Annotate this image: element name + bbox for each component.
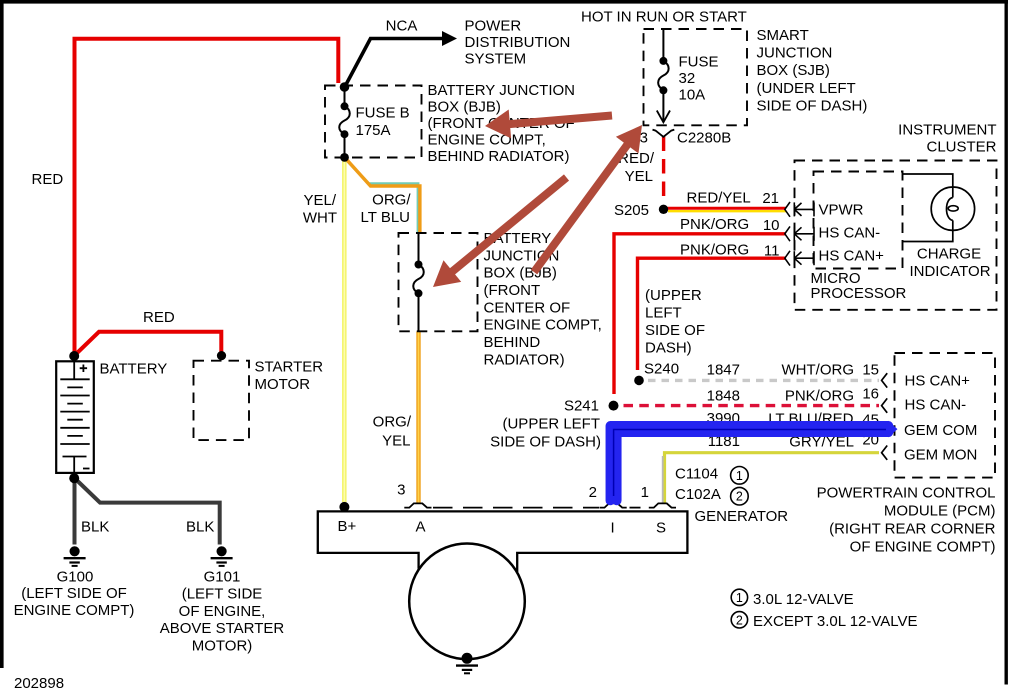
svg-text:LEFT: LEFT xyxy=(645,305,682,322)
svg-text:INSTRUMENT: INSTRUMENT xyxy=(898,122,996,139)
svg-text:ABOVE STARTER: ABOVE STARTER xyxy=(160,620,285,637)
svg-text:C102A: C102A xyxy=(675,486,721,503)
svg-text:BEHIND: BEHIND xyxy=(484,334,541,351)
svg-text:202898: 202898 xyxy=(14,675,64,692)
svg-text:10A: 10A xyxy=(679,87,706,104)
svg-text:HS CAN+: HS CAN+ xyxy=(819,248,885,265)
svg-text:YEL: YEL xyxy=(382,433,410,450)
svg-text:S205: S205 xyxy=(614,202,649,219)
svg-text:1847: 1847 xyxy=(707,362,740,379)
svg-text:C2280B: C2280B xyxy=(677,130,731,147)
svg-text:DISTRIBUTION: DISTRIBUTION xyxy=(465,34,571,51)
svg-text:15: 15 xyxy=(862,362,879,379)
svg-text:(LEFT SIDE OF: (LEFT SIDE OF xyxy=(21,585,127,602)
svg-text:WHT: WHT xyxy=(303,210,337,227)
svg-text:HS CAN-: HS CAN- xyxy=(819,225,881,242)
svg-text:NCA: NCA xyxy=(386,18,418,35)
svg-text:SIDE OF DASH): SIDE OF DASH) xyxy=(490,434,601,451)
svg-text:YEL: YEL xyxy=(625,168,653,185)
svg-text:11: 11 xyxy=(764,243,780,260)
svg-text:POWERTRAIN CONTROL: POWERTRAIN CONTROL xyxy=(817,485,996,502)
svg-text:INDICATOR: INDICATOR xyxy=(909,263,990,280)
svg-text:2: 2 xyxy=(736,490,743,504)
svg-text:175A: 175A xyxy=(356,122,391,139)
svg-text:32: 32 xyxy=(679,70,696,87)
svg-text:1: 1 xyxy=(641,484,649,501)
svg-text:CENTER OF: CENTER OF xyxy=(484,299,571,316)
svg-text:BOX (SJB): BOX (SJB) xyxy=(757,62,830,79)
svg-text:ENGINE COMPT): ENGINE COMPT) xyxy=(14,602,135,619)
svg-text:OF ENGINE,: OF ENGINE, xyxy=(179,603,266,620)
svg-text:I: I xyxy=(611,520,615,537)
svg-text:OF ENGINE COMPT): OF ENGINE COMPT) xyxy=(850,539,996,556)
svg-text:S: S xyxy=(656,520,666,537)
svg-text:C1104: C1104 xyxy=(675,466,718,483)
svg-text:GENERATOR: GENERATOR xyxy=(695,508,789,525)
svg-text:BOX (BJB): BOX (BJB) xyxy=(484,265,557,282)
svg-text:CLUSTER: CLUSTER xyxy=(926,139,996,156)
svg-text:SIDE OF DASH): SIDE OF DASH) xyxy=(757,98,868,115)
svg-text:ENGINE COMPT,: ENGINE COMPT, xyxy=(484,317,602,334)
svg-text:3: 3 xyxy=(397,482,405,499)
svg-text:1: 1 xyxy=(736,591,743,605)
svg-text:SMART: SMART xyxy=(757,27,809,44)
svg-text:RED/YEL: RED/YEL xyxy=(687,190,751,207)
svg-text:RADIATOR): RADIATOR) xyxy=(484,351,565,368)
svg-text:JUNCTION: JUNCTION xyxy=(757,45,833,62)
svg-text:2: 2 xyxy=(589,484,597,501)
svg-text:(RIGHT REAR CORNER: (RIGHT REAR CORNER xyxy=(829,521,996,538)
svg-text:MOTOR): MOTOR) xyxy=(192,637,253,654)
svg-text:(FRONT: (FRONT xyxy=(484,282,541,299)
svg-text:PNK/ORG: PNK/ORG xyxy=(680,242,749,259)
svg-text:PNK/ORG: PNK/ORG xyxy=(680,216,749,233)
svg-text:GEM MON: GEM MON xyxy=(904,447,977,464)
svg-text:HS CAN-: HS CAN- xyxy=(905,397,967,414)
svg-text:SIDE OF: SIDE OF xyxy=(645,322,705,339)
svg-text:S240: S240 xyxy=(644,361,679,378)
svg-text:RED: RED xyxy=(143,309,175,326)
svg-text:B+: B+ xyxy=(338,518,357,535)
svg-text:ORG/: ORG/ xyxy=(373,414,412,431)
svg-text:(UNDER LEFT: (UNDER LEFT xyxy=(757,80,856,97)
svg-text:(UPPER: (UPPER xyxy=(645,287,702,304)
svg-text:STARTER: STARTER xyxy=(255,359,324,376)
svg-text:PNK/ORG: PNK/ORG xyxy=(785,388,854,405)
svg-text:1848: 1848 xyxy=(707,388,740,405)
svg-text:PROCESSOR: PROCESSOR xyxy=(811,285,907,302)
svg-text:MOTOR: MOTOR xyxy=(255,376,311,393)
svg-text:BLK: BLK xyxy=(81,519,109,536)
svg-text:RED: RED xyxy=(32,171,64,188)
svg-text:ORG/: ORG/ xyxy=(372,192,411,209)
svg-text:(LEFT SIDE: (LEFT SIDE xyxy=(182,586,263,603)
svg-text:YEL/: YEL/ xyxy=(303,192,336,209)
svg-text:BATTERY: BATTERY xyxy=(100,361,168,378)
svg-text:VPWR: VPWR xyxy=(819,202,864,219)
svg-text:(UPPER LEFT: (UPPER LEFT xyxy=(502,416,600,433)
svg-text:POWER: POWER xyxy=(465,18,522,35)
svg-text:1: 1 xyxy=(736,469,743,483)
svg-text:MODULE (PCM): MODULE (PCM) xyxy=(884,503,996,520)
svg-text:ENGINE COMPT,: ENGINE COMPT, xyxy=(428,132,546,149)
svg-text:A: A xyxy=(416,519,426,536)
svg-text:16: 16 xyxy=(862,386,879,403)
svg-text:BLK: BLK xyxy=(186,519,214,536)
svg-text:BATTERY JUNCTION: BATTERY JUNCTION xyxy=(428,82,576,99)
svg-text:BOX (BJB): BOX (BJB) xyxy=(428,99,501,116)
svg-text:G100: G100 xyxy=(57,569,94,586)
svg-text:G101: G101 xyxy=(204,569,241,586)
svg-text:10: 10 xyxy=(763,217,780,234)
svg-text:SYSTEM: SYSTEM xyxy=(465,51,527,68)
svg-text:21: 21 xyxy=(762,190,779,207)
svg-text:EXCEPT 3.0L 12-VALVE: EXCEPT 3.0L 12-VALVE xyxy=(753,613,918,630)
svg-text:3.0L 12-VALVE: 3.0L 12-VALVE xyxy=(753,591,854,608)
svg-text:CHARGE: CHARGE xyxy=(917,246,981,263)
svg-text:FUSE B: FUSE B xyxy=(356,105,410,122)
svg-text:GEM COM: GEM COM xyxy=(904,422,977,439)
svg-text:FUSE: FUSE xyxy=(679,54,719,71)
svg-text:LT BLU: LT BLU xyxy=(361,209,410,226)
svg-text:S241: S241 xyxy=(564,398,599,415)
svg-text:HS CAN+: HS CAN+ xyxy=(905,373,971,390)
svg-text:DASH): DASH) xyxy=(645,340,692,357)
svg-text:WHT/ORG: WHT/ORG xyxy=(782,362,855,379)
svg-text:HOT IN RUN OR START: HOT IN RUN OR START xyxy=(581,9,747,26)
svg-text:2: 2 xyxy=(736,613,743,627)
svg-text:BEHIND RADIATOR): BEHIND RADIATOR) xyxy=(428,148,570,165)
